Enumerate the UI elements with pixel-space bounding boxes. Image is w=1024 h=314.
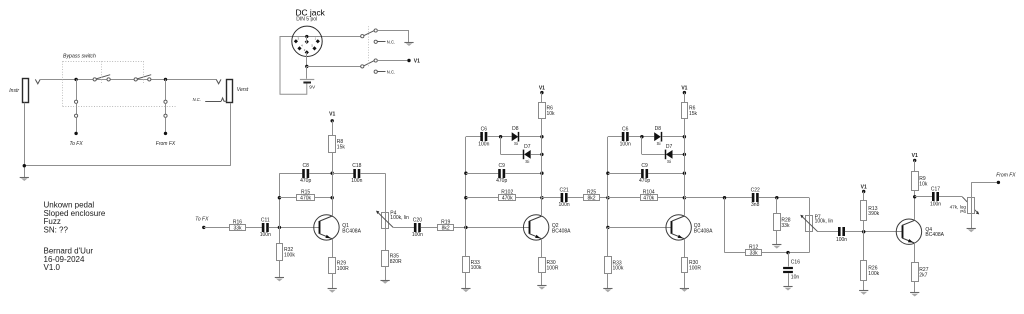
svg-text:820R: 820R xyxy=(390,259,402,265)
svg-text:N.C.: N.C. xyxy=(387,40,395,45)
svg-text:D7: D7 xyxy=(666,144,673,150)
svg-text:100n: 100n xyxy=(620,142,631,148)
svg-text:SN: ??: SN: ?? xyxy=(44,226,69,235)
svg-text:C6: C6 xyxy=(622,126,629,132)
svg-text:33k: 33k xyxy=(750,251,759,257)
svg-text:390k: 390k xyxy=(868,211,879,217)
svg-text:V1: V1 xyxy=(414,58,420,64)
svg-text:33k: 33k xyxy=(233,225,242,231)
svg-text:9V: 9V xyxy=(309,85,316,91)
svg-text:470k: 470k xyxy=(502,196,513,202)
svg-text:C11: C11 xyxy=(261,217,270,223)
svg-text:Instr: Instr xyxy=(9,88,19,94)
svg-text:470k: 470k xyxy=(300,196,311,202)
svg-text:Bypass switch: Bypass switch xyxy=(63,54,96,60)
svg-text:To FX: To FX xyxy=(195,217,209,223)
svg-text:100k, lin: 100k, lin xyxy=(815,219,834,225)
svg-text:100n: 100n xyxy=(930,201,941,207)
svg-text:BC408A: BC408A xyxy=(925,232,944,238)
svg-text:V1.0: V1.0 xyxy=(44,263,61,272)
svg-text:100k: 100k xyxy=(284,253,295,259)
svg-text:C21: C21 xyxy=(560,187,569,193)
svg-text:100R: 100R xyxy=(337,266,349,272)
svg-text:100n: 100n xyxy=(412,232,423,238)
svg-text:C9: C9 xyxy=(498,163,505,169)
svg-text:100k: 100k xyxy=(613,266,624,272)
svg-text:470p: 470p xyxy=(496,178,507,184)
svg-text:100n: 100n xyxy=(559,202,570,208)
svg-text:C6: C6 xyxy=(481,126,488,132)
svg-text:D7: D7 xyxy=(524,144,531,150)
svg-text:C20: C20 xyxy=(413,217,422,223)
svg-text:15k: 15k xyxy=(689,111,698,117)
svg-text:100R: 100R xyxy=(689,265,701,271)
svg-text:100n: 100n xyxy=(351,178,362,184)
svg-text:V1: V1 xyxy=(539,86,545,92)
svg-text:10n: 10n xyxy=(791,274,800,280)
svg-text:10k: 10k xyxy=(547,111,556,117)
svg-text:3n8: 3n8 xyxy=(751,202,760,208)
svg-text:C9: C9 xyxy=(641,163,648,169)
svg-text:D8: D8 xyxy=(512,126,519,132)
svg-text:N.C.: N.C. xyxy=(193,97,201,102)
svg-text:From FX: From FX xyxy=(156,141,176,147)
svg-text:470p: 470p xyxy=(639,178,650,184)
svg-text:100k: 100k xyxy=(471,265,482,271)
svg-text:To FX: To FX xyxy=(70,141,84,147)
svg-text:8k2: 8k2 xyxy=(442,225,450,231)
svg-text:C8: C8 xyxy=(302,163,309,169)
svg-text:8k2: 8k2 xyxy=(588,196,596,202)
svg-text:100n: 100n xyxy=(836,237,847,243)
svg-text:Si: Si xyxy=(667,159,671,164)
svg-text:100R: 100R xyxy=(547,265,559,271)
svg-text:470p: 470p xyxy=(300,178,311,184)
svg-text:100n: 100n xyxy=(478,142,489,148)
svg-text:Verst: Verst xyxy=(237,87,249,93)
svg-text:N.C.: N.C. xyxy=(387,70,395,75)
svg-text:BC408A: BC408A xyxy=(694,229,713,235)
svg-text:Si: Si xyxy=(525,159,529,164)
svg-text:BC408A: BC408A xyxy=(552,229,571,235)
svg-text:Si: Si xyxy=(514,141,518,146)
svg-text:BC408A: BC408A xyxy=(342,229,361,235)
svg-text:C17: C17 xyxy=(931,186,940,192)
svg-text:DIN 5 pol: DIN 5 pol xyxy=(296,17,317,23)
svg-text:From FX: From FX xyxy=(996,172,1016,178)
svg-text:100n: 100n xyxy=(260,232,271,238)
svg-text:100k: 100k xyxy=(868,271,879,277)
svg-text:33k: 33k xyxy=(781,223,790,229)
svg-text:10k: 10k xyxy=(919,182,928,188)
svg-text:100k, lin: 100k, lin xyxy=(390,215,409,221)
svg-text:P6: P6 xyxy=(960,209,966,214)
svg-text:470k: 470k xyxy=(643,196,654,202)
svg-text:15k: 15k xyxy=(337,145,346,151)
svg-text:V1: V1 xyxy=(912,153,918,159)
svg-text:V1: V1 xyxy=(329,112,335,118)
svg-text:V1: V1 xyxy=(861,184,867,190)
svg-text:C18: C18 xyxy=(352,163,361,169)
svg-text:Si: Si xyxy=(656,141,660,146)
svg-text:2k7: 2k7 xyxy=(919,272,927,278)
svg-text:C22: C22 xyxy=(751,187,760,193)
svg-text:C16: C16 xyxy=(791,260,800,266)
svg-text:V1: V1 xyxy=(681,86,687,92)
svg-text:D8: D8 xyxy=(655,126,662,132)
